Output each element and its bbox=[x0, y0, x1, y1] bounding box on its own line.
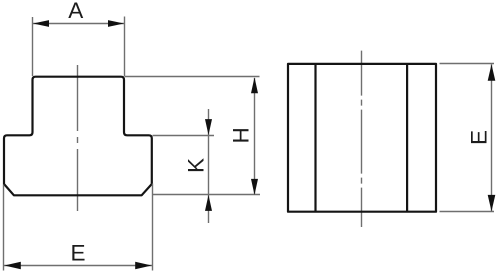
dimension A extension line right bbox=[124, 17, 126, 77]
extension line from bottom edge (for H and K) bbox=[153, 194, 261, 196]
dimension E (front) line bbox=[4, 265, 152, 267]
dimension A line bbox=[33, 23, 125, 25]
svg-text:H: H bbox=[229, 127, 254, 143]
side view inner edge left bbox=[314, 64, 316, 212]
dimension E (side) line bbox=[491, 64, 493, 211]
extension line from shoulder (for K) bbox=[153, 135, 215, 137]
side view center line bbox=[361, 51, 363, 227]
svg-text:K: K bbox=[183, 158, 208, 173]
extension line from top edge (for H) bbox=[125, 76, 260, 78]
dimension E (side) extension line top bbox=[440, 63, 495, 65]
dimension K arrow bottom (points up at bottom line) bbox=[205, 195, 212, 211]
dimension E (front) arrow left bbox=[4, 262, 21, 270]
side view inner edge right bbox=[406, 64, 408, 212]
dimension E (side) extension line bottom bbox=[440, 211, 495, 213]
dimension E (front) arrow right bbox=[135, 262, 152, 270]
dimension E (front) extension line left bbox=[3, 185, 5, 271]
dimension A extension line left bbox=[32, 17, 34, 76]
dimension A arrow left bbox=[33, 20, 49, 27]
svg-text:A: A bbox=[68, 0, 83, 23]
front view center line bbox=[77, 65, 79, 211]
dimension H arrow bottom bbox=[251, 179, 258, 195]
side view rectangle bbox=[288, 64, 436, 212]
dimension E (side) arrow bottom bbox=[488, 195, 496, 212]
svg-text:E: E bbox=[70, 240, 85, 265]
dimension K line bbox=[208, 109, 210, 223]
svg-text:E: E bbox=[466, 130, 491, 145]
dimension E (front) extension line right bbox=[152, 184, 154, 271]
dimension E (side) arrow top bbox=[488, 64, 496, 81]
dimension K arrow top (points down at shoulder) bbox=[205, 119, 212, 135]
dimension A arrow right bbox=[108, 20, 124, 27]
dimension H line bbox=[254, 78, 256, 195]
front view T-nut outline bbox=[4, 77, 152, 196]
dimension H arrow top bbox=[251, 77, 258, 93]
